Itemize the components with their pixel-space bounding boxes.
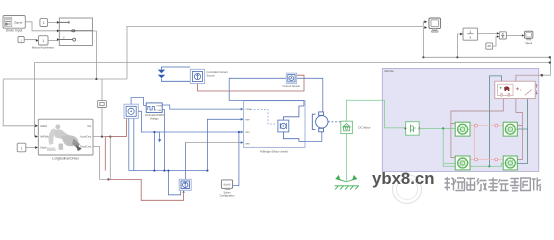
area annotation: vehicle model lavender region: [382, 69, 539, 172]
block: Solver Configuration: [220, 180, 235, 198]
wire: L1 reference speed long line to Scope: [127, 22, 427, 79]
wires: PWM block outputs to H-bridge: [129, 105, 243, 195]
svg-text:DC Motor: DC Motor: [359, 125, 371, 129]
watermark faint circle logo: [393, 175, 422, 204]
svg-text:AccelCmd: AccelCmd: [80, 136, 92, 139]
svg-text:Speed: Speed: [525, 42, 533, 45]
block: manual switch: [59, 18, 92, 46]
red net: block12 to brake source: [105, 118, 183, 200]
svg-text:VelFdbk: VelFdbk: [40, 136, 49, 139]
block: Display (speed): [525, 31, 533, 45]
svg-text:1: 1: [469, 30, 471, 34]
block: Controlled Current Source: [190, 69, 228, 83]
block: constant small E: [486, 37, 497, 50]
svg-text:H-Bridge (Motor driver): H-Bridge (Motor driver): [260, 149, 289, 153]
green wires: motor shaft to gear, and to rotational reference: [347, 100, 405, 180]
svg-text:Voltage: Voltage: [150, 117, 159, 121]
wire: blue loop with reference triangles at controlled current source: [161, 67, 190, 81]
block: Longitudinal Driver: [38, 119, 93, 160]
svg-text:ybx8.cn: ybx8.cn: [372, 169, 435, 188]
block: motor mechanical green block: [341, 121, 371, 133]
block: constant 1 (top): [40, 19, 48, 27]
wire: speed line La to scopes: [423, 28, 550, 76]
red net: battery rail CCS to CS: [198, 75, 305, 91]
svg-text:Controlled PWM: Controlled PWM: [145, 113, 164, 117]
svg-text:Longitudinal Driver: Longitudinal Driver: [52, 157, 80, 161]
block: Vehicle Body: [495, 81, 538, 98]
svg-text:PWM: PWM: [157, 106, 162, 108]
teal chassis net: [489, 76, 527, 166]
watermark chinese team name (fake glyph strokes, grey with white relief): [445, 177, 542, 192]
svg-text:REV: REV: [245, 132, 250, 134]
wheel tire block bottom-left: [455, 156, 470, 170]
svg-text:Configuration: Configuration: [220, 195, 235, 198]
svg-text:DecelCmd: DecelCmd: [80, 146, 92, 149]
pink slip links with open circles: [470, 126, 503, 160]
svg-text:f(x)=0: f(x)=0: [224, 182, 231, 186]
input port arrows dark: [35, 20, 524, 149]
svg-text:1: 1: [21, 146, 23, 150]
block: DC motor electrical symbol: [312, 112, 341, 132]
svg-text:Source: Source: [207, 73, 216, 77]
block: Current Sensor: [283, 73, 301, 88]
block: gain 1/3.6: [463, 28, 478, 40]
svg-text:Signal: Signal: [14, 20, 23, 24]
block: Driver Input (signal builder): [3, 16, 25, 33]
mechanical rotational reference (green ground): [335, 176, 360, 190]
wire: driver input to switch in2: [25, 22, 57, 148]
svg-text:PWM: PWM: [245, 109, 251, 111]
svg-text:1: 1: [43, 21, 45, 25]
block: Controlled PWM Voltage: [145, 103, 164, 121]
block: H-Bridge: [244, 101, 305, 154]
svg-text:REF: REF: [245, 119, 250, 121]
svg-text:1: 1: [42, 39, 44, 43]
block: divide F: [499, 32, 506, 39]
wheel tire block top-left: [455, 122, 470, 136]
wire: switch output down to junction: [3, 31, 127, 137]
wheel tire block top-right: [503, 122, 517, 136]
block: rate limiter small S1: [98, 101, 107, 108]
svg-text:BRK: BRK: [245, 144, 250, 146]
svg-text:Info: Info: [87, 125, 92, 128]
wires around block12: [129, 98, 155, 171]
block: Manual Accelerator: [32, 36, 54, 50]
junction dots gray: [95, 56, 551, 193]
wheel tire block bottom-right: [503, 156, 517, 170]
svg-text:Current Sensor: Current Sensor: [283, 84, 301, 88]
block: constant (grade source small): [18, 37, 36, 43]
wire: feedback speed line Lb full width: [35, 63, 551, 137]
svg-text:Grade: Grade: [40, 147, 47, 150]
electrical reference double triangle: [158, 70, 166, 79]
wire: current sensor left to H-bridge plus: [229, 78, 323, 141]
svg-text:Controlled Current: Controlled Current: [207, 70, 228, 74]
svg-text:Manual Accelerator: Manual Accelerator: [32, 45, 54, 49]
block: Scope (speeds): [429, 18, 441, 32]
svg-text:Driver Input: Driver Input: [6, 29, 23, 33]
wires gain chain: [478, 33, 522, 35]
wire: AccelCmd line: [93, 137, 126, 179]
block: voltage sensor block12: [124, 104, 138, 118]
block: brake controlled source: [179, 179, 191, 190]
blue junction dots: [153, 131, 240, 172]
block: simple gear: [405, 122, 421, 136]
svg-text:s: s: [469, 35, 471, 39]
svg-text:Vehicle: Vehicle: [384, 69, 394, 73]
green wheel axle net: [419, 128, 503, 166]
svg-text:VelRef: VelRef: [40, 125, 47, 128]
block: grade constant: [17, 143, 26, 152]
maroon hub net left: [451, 75, 542, 159]
wire: DecelCmd line to BRK and brake source: [93, 143, 243, 180]
blue arrowheads: [158, 108, 243, 144]
